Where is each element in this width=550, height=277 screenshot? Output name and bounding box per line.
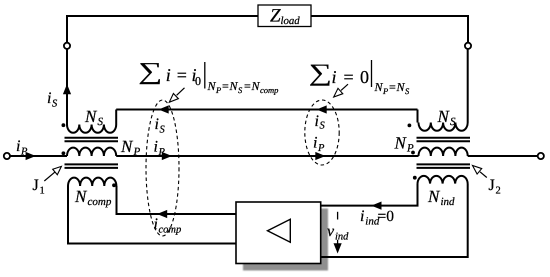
label N_comp (74, 187, 112, 208)
current arrow i_S up (63, 84, 71, 94)
transformer J1 winding N_P (67, 148, 116, 156)
wire i_comp (117, 186, 237, 214)
svg-text:comp: comp (159, 225, 182, 236)
svg-text:P: P (317, 143, 325, 154)
wire bottom right (321, 184, 468, 258)
terminal node left (4, 153, 10, 159)
transformer J1 winding N_comp (68, 178, 116, 186)
svg-text:J: J (33, 177, 39, 194)
label i_S in right ellipse (315, 113, 326, 132)
label i_comp (154, 216, 182, 236)
label i_P in right ellipse (313, 135, 325, 155)
svg-text:=: = (222, 79, 229, 93)
svg-text:=: = (344, 67, 354, 87)
label i_S left (47, 90, 58, 110)
svg-text:Z: Z (270, 6, 281, 27)
terminal node right-top (465, 43, 471, 49)
svg-text:P: P (158, 147, 166, 158)
voltage tick v_ind (337, 212, 339, 220)
svg-text:=: = (244, 79, 251, 93)
wire primary right (468, 155, 538, 157)
wire N_comp left down (68, 186, 236, 244)
wire i_S horizontal (116, 109, 417, 111)
transformer J2 winding N_S (419, 123, 468, 131)
svg-text:N: N (207, 79, 217, 93)
svg-text:S: S (320, 121, 326, 132)
svg-text:i: i (47, 90, 51, 107)
amplifier box U1 (236, 202, 321, 264)
svg-text:1: 1 (40, 186, 45, 197)
polarity dot N_ind (413, 176, 417, 180)
svg-text:P: P (215, 85, 221, 95)
svg-text:comp: comp (260, 85, 278, 95)
terminal node right (538, 153, 544, 159)
label v_ind (327, 223, 349, 243)
svg-text:S: S (450, 116, 456, 128)
svg-text:i: i (154, 216, 158, 233)
polarity dot N_S left (62, 123, 66, 127)
svg-text:S: S (52, 99, 58, 110)
wire primary middle (116, 155, 418, 157)
label N_P left (120, 137, 141, 158)
current arrow i_S in right ellipse (317, 105, 327, 113)
polarity dot N_S right (408, 124, 412, 128)
wire top left (67, 16, 258, 43)
wire secondary left vertical (66, 49, 68, 126)
svg-text:N: N (74, 187, 88, 206)
svg-text:v: v (327, 223, 335, 240)
svg-text:i: i (315, 113, 319, 130)
svg-text:N: N (394, 134, 408, 153)
svg-text:i: i (155, 116, 159, 133)
voltage arrow v_ind down (334, 240, 342, 254)
summation formula right (309, 59, 410, 96)
transformer J2 core (417, 138, 471, 142)
svg-text:=: = (177, 65, 187, 85)
svg-text:N: N (427, 187, 441, 206)
svg-text:N: N (84, 107, 98, 126)
current arrow i_P in right ellipse (315, 152, 325, 160)
svg-text:N: N (396, 80, 406, 94)
svg-text:S: S (160, 125, 166, 136)
transformer J2 winding N_P (419, 148, 468, 156)
wire N_S right riser (115, 110, 117, 125)
svg-text:N: N (120, 137, 134, 156)
polarity dot N_P right (411, 151, 415, 155)
amplifier triangle (268, 219, 291, 242)
svg-text:i: i (154, 139, 158, 156)
terminal node left-top (64, 43, 70, 49)
svg-text:i: i (313, 135, 317, 152)
svg-text:i: i (332, 67, 337, 87)
label i_P in left ellipse (154, 139, 166, 159)
transformer J2 core 2 (417, 164, 471, 168)
wire N_S right to terminal (467, 49, 469, 123)
svg-text:N: N (374, 80, 384, 94)
svg-text:ind: ind (441, 196, 456, 208)
wire N_S right left riser (417, 110, 419, 123)
impedance Z_load (258, 5, 311, 27)
transformer J1 core (65, 138, 119, 142)
label i_P left (16, 138, 28, 158)
label N_S right (437, 107, 457, 128)
label i_ind = 0 (360, 208, 394, 228)
wire primary left (10, 155, 67, 157)
svg-text:S: S (98, 116, 104, 128)
polarity dot N_P left (62, 151, 66, 155)
transformer J1 core 2 (65, 164, 119, 168)
label J2 (489, 177, 501, 197)
amplifier shadow (243, 209, 328, 271)
label N_ind (427, 187, 455, 208)
svg-text:0: 0 (360, 67, 369, 87)
wire top right (311, 16, 468, 43)
svg-text:P: P (20, 147, 28, 158)
svg-text:P: P (382, 86, 388, 96)
svg-text:N: N (251, 79, 261, 93)
node ellipse right (305, 100, 339, 165)
wire i_ind (321, 184, 418, 206)
svg-text:i: i (16, 138, 20, 155)
transformer J2 winding N_ind (418, 176, 468, 184)
svg-text:N: N (229, 79, 239, 93)
pointer arrow J2 (473, 166, 487, 178)
label J1 (33, 177, 45, 197)
pointer arrow J1 (44, 166, 61, 181)
polarity dot N_comp (112, 183, 116, 187)
svg-text:comp: comp (88, 196, 112, 208)
svg-text:i: i (360, 208, 364, 225)
svg-text:i: i (166, 65, 171, 85)
current arrow i_ind left (371, 202, 381, 210)
summation formula left (138, 58, 278, 95)
transformer J1 winding N_S (67, 125, 116, 133)
node ellipse left (146, 100, 179, 236)
svg-text:N: N (437, 107, 451, 126)
svg-text:0: 0 (195, 74, 201, 88)
svg-text:=: = (389, 80, 396, 94)
svg-text:∑: ∑ (138, 58, 162, 85)
svg-text:load: load (281, 15, 301, 27)
pointer arrow formula left (169, 88, 184, 102)
current arrow i_P in left ellipse (162, 152, 172, 160)
svg-text:=0: =0 (378, 208, 395, 225)
svg-text:2: 2 (496, 186, 501, 197)
current arrow i_S in left ellipse (159, 105, 169, 113)
label i_S in left ellipse (155, 116, 166, 136)
label N_P right (394, 134, 415, 155)
current arrow i_comp left (157, 210, 167, 218)
label N_S left (84, 107, 104, 128)
svg-text:J: J (489, 177, 495, 194)
svg-text:∑: ∑ (309, 59, 332, 86)
current arrow i_P right (26, 152, 36, 160)
pointer arrow formula right (334, 84, 348, 97)
